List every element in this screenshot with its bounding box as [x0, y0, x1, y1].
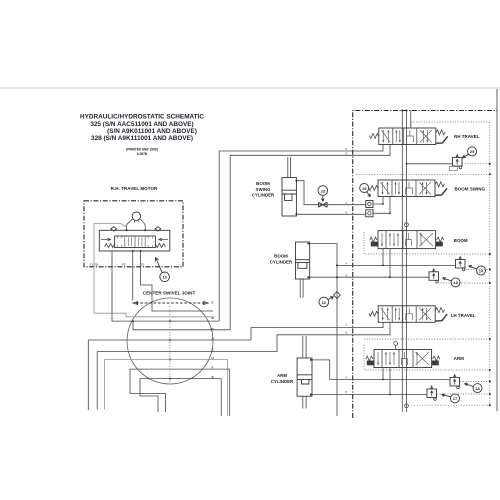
dotted relief 18 outlet: [460, 380, 490, 382]
spool cell ticks: [118, 236, 153, 248]
spool divider 2: [134, 236, 136, 248]
svg-text:R.H. TRAVEL MOTOR: R.H. TRAVEL MOTOR: [111, 186, 158, 191]
svg-text:18: 18: [475, 386, 480, 391]
wire boom cyl top port loop: [308, 244, 337, 416]
node block bottom ports: [132, 250, 134, 252]
dotted boom section frame: [364, 232, 490, 254]
check valve on boom trunk: [334, 292, 341, 299]
page top rule: [0, 87, 500, 89]
svg-text:17: 17: [453, 396, 458, 401]
arrow left into block: [101, 238, 111, 240]
callout circle 12: [319, 297, 329, 307]
vent circle above arm valve: [394, 342, 398, 346]
svg-text:B: B: [346, 211, 348, 214]
vent circle above boom valve: [405, 223, 409, 227]
wire H grey through swivel: [104, 360, 227, 417]
dotted arm section frame: [364, 345, 490, 370]
arm cylinder rod: [303, 336, 306, 409]
svg-text:SWING: SWING: [256, 187, 271, 192]
svg-text:BOOM SWING: BOOM SWING: [455, 186, 486, 191]
label BOOM SWING CYLINDER: [252, 181, 275, 198]
supply trunk line P: [401, 111, 403, 413]
shuttle box 1 boom swing pilot: [366, 201, 373, 208]
svg-text:(S/N A9K011001 AND ABOVE): (S/N A9K011001 AND ABOVE): [107, 128, 197, 135]
spool divider 1: [124, 236, 126, 248]
label BOOM CYLINDER: [270, 254, 293, 265]
arrow 29 to relief: [463, 154, 469, 158]
port letters at enclosure boundary: [346, 148, 348, 394]
dotted bottom return: [412, 404, 490, 406]
callout circle 29: [468, 147, 477, 156]
callout circle 17: [451, 394, 460, 403]
trunk wire from RH travel valve port b: [230, 145, 390, 330]
arrow 17 to relief: [442, 394, 451, 397]
wire G through swivel: [140, 379, 221, 416]
boom cylinder piston: [296, 260, 310, 269]
wire C drop leg: [96, 352, 98, 410]
wire relief 29 inlet: [407, 163, 453, 165]
arrow right into block: [159, 238, 169, 240]
arrow 14 to relief: [469, 265, 477, 269]
wire riser TL to B: [94, 224, 214, 317]
wire boom swing port a riser: [353, 197, 383, 205]
svg-text:12: 12: [322, 300, 327, 305]
dotted relief 17 outlet: [437, 393, 490, 395]
arrow 23 to orifice: [322, 195, 325, 201]
trunk wire from RH travel valve port a: [219, 145, 383, 322]
node boom swing bottom port: [295, 213, 297, 215]
swivel center dotted line: [169, 306, 171, 383]
node junction boom branch: [336, 264, 338, 266]
valve LH TRAVEL: [369, 306, 447, 323]
relief 29 drain box: [450, 167, 458, 171]
dotted lh section line: [364, 338, 490, 340]
svg-text:BOOM: BOOM: [256, 181, 270, 186]
wire boom swing bottom port: [296, 213, 352, 215]
svg-text:328 (S/N A9K111001 AND ABOVE): 328 (S/N A9K111001 AND ABOVE): [91, 135, 193, 142]
wire A through swivel: [88, 322, 383, 340]
port labels on enclosure bottom: [90, 263, 144, 267]
node rail dots: [489, 163, 491, 406]
supply trunk line T: [406, 111, 408, 413]
wire relief 17 inlet: [390, 394, 427, 396]
dotted relief 29 outlet: [462, 163, 490, 165]
valve ARM: [366, 350, 440, 368]
svg-text:ARM: ARM: [454, 356, 464, 361]
svg-text:B: B: [346, 274, 348, 277]
title block: [80, 114, 204, 157]
svg-text:3-097B: 3-097B: [137, 152, 148, 156]
spring S1 left: [105, 244, 115, 248]
main valve bank enclosure (dash-dot): [353, 111, 497, 419]
check valve D1 diamond left: [111, 227, 117, 231]
valve block V1 inner spool box: [115, 236, 156, 248]
swivel joint circle: [127, 298, 213, 384]
svg-text:325 (S/N AAC511001 AND ABOVE): 325 (S/N AAC511001 AND ABOVE): [90, 121, 193, 128]
wire riser T2 step: [141, 251, 213, 311]
svg-text:CYLINDER: CYLINDER: [252, 193, 275, 198]
label ARM CYLINDER: [271, 373, 294, 384]
svg-text:RH TRAVEL: RH TRAVEL: [454, 134, 480, 139]
boom swing cylinder body: [282, 178, 296, 216]
svg-text:29: 29: [470, 149, 475, 154]
valve BOOM: [370, 231, 444, 249]
wire motor inner legs: [135, 220, 139, 222]
node boom cyl top port: [307, 243, 309, 245]
wire boom swing port b riser: [353, 197, 390, 215]
RH travel motor enclosure (dash-dot box): [84, 201, 183, 267]
relief valve box 18: [450, 375, 460, 389]
svg-text:B: B: [346, 148, 348, 151]
callout circle 14: [477, 266, 486, 275]
node arm cyl top port: [310, 359, 312, 361]
boom swing cylinder piston: [282, 190, 296, 200]
wire C through swivel: [97, 322, 390, 351]
spring S2 right: [155, 244, 165, 248]
valve RH TRAVEL: [369, 128, 447, 145]
svg-text:A: A: [346, 377, 348, 380]
svg-text:BOOM: BOOM: [274, 254, 288, 259]
svg-text:CENTER SWIVEL JOINT: CENTER SWIVEL JOINT: [143, 291, 196, 296]
node boom swing top port: [295, 180, 297, 182]
shuttle box 2 boom swing pilot: [366, 210, 373, 217]
svg-text:E: E: [212, 301, 214, 305]
wire arm cyl bottom port: [311, 368, 390, 394]
callout circle 10: [160, 272, 170, 282]
wire boom branch to valve a: [337, 264, 353, 266]
motor M1 circle: [132, 212, 140, 220]
check valve D2 diamond right: [155, 227, 161, 231]
boom swing cylinder rod: [288, 157, 291, 178]
svg-text:B: B: [346, 332, 348, 335]
svg-text:H: H: [212, 356, 214, 360]
svg-text:A: A: [346, 324, 348, 327]
boom cylinder rod: [300, 279, 303, 298]
svg-text:A: A: [346, 202, 348, 205]
relief valve box 14: [456, 257, 466, 271]
relief valve box 13: [429, 269, 439, 283]
svg-text:B: B: [346, 153, 348, 156]
callout circle 18: [473, 384, 482, 393]
svg-text:BOOM: BOOM: [454, 238, 468, 243]
svg-text:T2: T2: [141, 263, 145, 267]
wire boom port b inside: [353, 249, 429, 278]
svg-text:P2: P2: [122, 263, 126, 267]
wire riser P2 to E: [132, 251, 134, 301]
swivel double arrow E: [136, 302, 205, 304]
svg-text:A: A: [346, 263, 348, 266]
svg-text:LH TRAVEL: LH TRAVEL: [451, 313, 476, 318]
wire boom swing top port to valve: [296, 181, 352, 205]
valve BOOM SWING: [369, 180, 447, 197]
wire arm cyl top port: [311, 360, 383, 380]
callout circle 13: [451, 278, 460, 287]
node trunk top junctions: [401, 110, 403, 112]
svg-text:19: 19: [362, 186, 367, 191]
arrow 12 to check: [328, 297, 334, 300]
node boom cyl bottom port: [307, 276, 309, 278]
svg-text:B: B: [346, 391, 348, 394]
arm cylinder piston: [297, 375, 312, 384]
svg-text:HYDRAULIC/HYDROSTATIC SCHEMATI: HYDRAULIC/HYDROSTATIC SCHEMATIC: [80, 114, 204, 121]
spool divider 3: [144, 236, 146, 248]
arrow from 10 to block: [155, 258, 162, 273]
svg-text:(PRINTED MAY 2006): (PRINTED MAY 2006): [126, 148, 158, 152]
node arm cyl bottom port: [310, 394, 312, 396]
wire boom port a inside: [353, 249, 456, 266]
wire boom cyl bottom port: [308, 276, 352, 278]
page right edge shadow: [496, 89, 498, 411]
wire motor left leg: [127, 219, 133, 230]
vent circle bottom: [405, 404, 409, 408]
callout circle 23: [318, 186, 328, 196]
valve block V1 outer body: [99, 230, 170, 251]
wire riser P-B: [112, 251, 219, 321]
svg-text:14: 14: [479, 268, 484, 273]
dotted below relief 13: [441, 282, 490, 284]
node motor left port: [126, 229, 128, 231]
arm cylinder body: [297, 358, 312, 396]
arrow 18 to relief: [465, 383, 474, 386]
node motor right port: [144, 229, 146, 231]
relief valve box 29: [453, 155, 463, 169]
stub above RH travel valve: [410, 111, 412, 129]
callout circle 19: [360, 184, 369, 193]
arrow 19 to spring: [367, 192, 371, 197]
svg-text:F: F: [212, 366, 214, 370]
relief valve box 17: [427, 386, 437, 400]
wire A drop leg: [87, 340, 89, 410]
dotted return top: [411, 121, 490, 123]
node shuttle junctions: [382, 203, 384, 205]
dotted section divider 1: [356, 173, 490, 175]
dotted relief 14 outlet: [466, 269, 490, 271]
svg-text:10: 10: [162, 275, 167, 280]
boom cylinder body: [296, 242, 310, 279]
wire D branch: [133, 321, 230, 330]
dotted return right rail: [489, 122, 491, 405]
svg-text:CYLINDER: CYLINDER: [270, 259, 293, 264]
svg-text:23: 23: [321, 188, 326, 193]
svg-text:13: 13: [453, 280, 458, 285]
arrow 13 to relief: [443, 278, 452, 281]
node boom port junctions: [382, 265, 384, 267]
spool center lines: [128, 237, 142, 246]
wire motor right leg: [140, 219, 145, 230]
svg-text:CYLINDER: CYLINDER: [271, 379, 294, 384]
wire relief 18 inlet: [383, 378, 450, 380]
node junction boom trunk: [336, 276, 338, 278]
svg-text:ARM: ARM: [277, 373, 287, 378]
wire left case drain lead: [94, 224, 127, 228]
wire F through swivel: [130, 369, 230, 416]
orifice valve X on boom swing line: [319, 202, 328, 207]
